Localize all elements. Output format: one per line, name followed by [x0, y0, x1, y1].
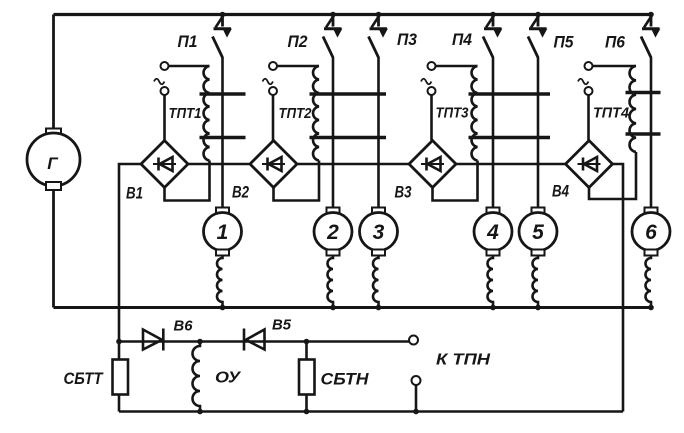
- junction node on top bus at switch П4: [490, 12, 496, 18]
- svg-text:Г: Г: [47, 154, 59, 173]
- switch П5 (knife switch with double-flag arrow): [528, 15, 547, 58]
- switch П4 (knife switch with double-flag arrow): [483, 15, 502, 58]
- switch П3 (knife switch with double-flag arrow): [369, 15, 388, 58]
- wire В1 left vertex output down to measuring circuit: [119, 164, 141, 342]
- svg-text:СБТТ: СБТТ: [64, 369, 104, 388]
- svg-text:К ТПН: К ТПН: [436, 352, 491, 369]
- magnetic core bars of ТПТ2: [310, 94, 387, 138]
- motor 3 bottom brush terminal: [372, 250, 385, 256]
- smoothing coil under motor 6: [646, 256, 652, 308]
- generator Г: [27, 133, 80, 186]
- motor 1 bottom brush terminal: [216, 250, 229, 256]
- traction motor 1: [204, 213, 242, 251]
- junction node ОУ bottom: [197, 409, 203, 415]
- smoothing coil under motor 1: [217, 256, 222, 308]
- AC tilde mark of ТПТ4: [578, 79, 588, 85]
- junction node on top bus at switch П3: [376, 12, 382, 18]
- wire generator to top bus: [52, 15, 55, 130]
- wire В3 right vertex to В4 left vertex (AC link): [456, 163, 566, 166]
- transformer ТПТ2 primary terminal (top circle): [269, 62, 277, 70]
- traction motor 6: [632, 213, 670, 251]
- wire column П2 down to motor 2: [332, 57, 335, 208]
- resistor СБТТ: [113, 360, 129, 395]
- AC tilde mark of ТПТ2: [263, 79, 273, 85]
- motor 4 top brush terminal: [487, 208, 500, 214]
- diode symbol inside В3: [421, 157, 444, 171]
- junction node on top bus at switch П1: [220, 12, 226, 18]
- traction motor 4: [474, 213, 512, 251]
- diode В5: [244, 329, 265, 351]
- magnetic core bars of ТПТ3: [469, 94, 551, 138]
- wire column П3 down to motor 3: [377, 57, 380, 208]
- smoothing coil under motor 5: [533, 256, 539, 308]
- transformer ТПТ1 primary terminal (bottom circle): [161, 87, 169, 95]
- wire В1 right vertex to В2 left vertex (AC link): [188, 163, 250, 166]
- wire ТПТ4 bottom terminal to bridge В4: [587, 95, 590, 141]
- wire column П6 down to motor 6: [650, 57, 653, 208]
- transformer ТПТ2 primary terminal (bottom circle): [269, 87, 277, 95]
- motor 5 bottom brush terminal: [532, 250, 545, 256]
- bridge rectifier В2 (diamond): [250, 141, 297, 188]
- wire column П4 down to motor 4: [492, 57, 495, 208]
- wire down to СБТН: [305, 342, 308, 360]
- motor 5 top brush terminal: [532, 208, 545, 214]
- wire В4 bottom vertex loop to coil bottom: [589, 152, 636, 199]
- wire ТПТ1 bottom terminal to bridge В1: [163, 95, 166, 141]
- svg-text:П5: П5: [554, 33, 574, 52]
- secondary winding (coil) of ТПТ1: [204, 66, 210, 161]
- svg-text:В5: В5: [272, 317, 292, 334]
- wire СБТТ to bottom bus: [118, 394, 121, 412]
- junction node left output / diode line: [116, 339, 122, 345]
- junction node СБТН bottom: [304, 409, 310, 415]
- resistor СБТН: [299, 360, 315, 395]
- generator G top terminal: [46, 129, 61, 137]
- wire: bottom bus: [119, 410, 623, 413]
- wire В2 right vertex to В3 left vertex (AC link): [297, 163, 409, 166]
- wire column П1 down to motor 1: [221, 57, 224, 208]
- svg-text:ТПТ3: ТПТ3: [436, 105, 470, 122]
- svg-text:ТПТ4: ТПТ4: [593, 105, 630, 122]
- junction node on top bus at switch П2: [330, 12, 336, 18]
- transformer ТПТ3 primary terminal (top circle): [428, 62, 436, 70]
- junction node СБТН top: [304, 339, 310, 345]
- svg-text:1: 1: [217, 221, 229, 244]
- wire column П5 down to motor 5: [537, 57, 540, 208]
- motor 2 top brush terminal: [327, 208, 340, 214]
- wire ТПТ3 bottom terminal to bridge В3: [430, 95, 433, 141]
- wire from ТПТ4 top terminal to secondary winding top: [593, 65, 637, 68]
- secondary winding (coil) of ТПТ2: [313, 66, 319, 161]
- svg-text:4: 4: [486, 221, 499, 244]
- wire coil ТПТ2 bottom to AC bus: [318, 161, 321, 165]
- junction node motor 6 to return bus: [648, 305, 654, 311]
- wire from ТПТ2 top terminal to secondary winding top: [277, 65, 319, 68]
- wire В2 bottom vertex loop to coil bottom: [274, 164, 320, 201]
- magnetic core bars of ТПТ4: [626, 93, 661, 135]
- smoothing coil under motor 4: [488, 256, 493, 308]
- wire В1 bottom vertex loop to coil bottom: [165, 164, 210, 201]
- generator G bottom terminal: [46, 182, 61, 190]
- traction motor 5: [519, 213, 557, 251]
- terminal circle К ТПН lower: [412, 376, 421, 385]
- svg-text:П3: П3: [397, 30, 417, 49]
- svg-text:6: 6: [645, 221, 657, 244]
- diode В6: [143, 329, 163, 351]
- secondary winding (coil) of ТПТ4: [630, 66, 636, 152]
- wire coil ТПТ1 bottom to AC bus: [208, 161, 211, 165]
- wire В4 right vertex output down right side: [613, 164, 624, 412]
- wire: motor return bus: [54, 306, 652, 309]
- wire diode line В6-В5: [119, 340, 409, 343]
- svg-text:СБТН: СБТН: [321, 370, 370, 389]
- svg-text:ТПТ1: ТПТ1: [169, 105, 202, 122]
- svg-text:2: 2: [326, 221, 339, 244]
- motor 6 bottom brush terminal: [645, 250, 658, 256]
- junction node on top bus at switch П5: [535, 12, 541, 18]
- svg-text:3: 3: [373, 221, 385, 244]
- smoothing coil under motor 2: [328, 256, 334, 308]
- AC tilde mark of ТПТ1: [154, 79, 164, 85]
- svg-text:5: 5: [532, 221, 544, 244]
- traction motor 2: [314, 213, 352, 251]
- svg-text:П4: П4: [452, 30, 472, 49]
- wire ТПТ2 bottom terminal to bridge В2: [272, 95, 275, 141]
- svg-text:П2: П2: [288, 32, 308, 51]
- switch П1 (knife switch with double-flag arrow): [213, 15, 232, 58]
- svg-text:В3: В3: [395, 183, 412, 202]
- wire from ТПТ1 top terminal to secondary winding top: [169, 65, 210, 68]
- magnetic core bars of ТПТ1: [200, 94, 246, 138]
- junction node ОУ top: [197, 339, 203, 345]
- svg-text:ОУ: ОУ: [215, 370, 241, 387]
- wire generator to motor return bus: [52, 190, 55, 308]
- motor 6 top brush terminal: [645, 208, 658, 214]
- bridge rectifier В4 (diamond): [566, 141, 613, 188]
- junction node motor 2 to return bus: [330, 305, 336, 311]
- motor 3 top brush terminal: [372, 208, 385, 214]
- svg-text:В4: В4: [552, 182, 569, 201]
- transformer ТПТ3 primary terminal (bottom circle): [428, 87, 436, 95]
- traction motor 3: [360, 213, 398, 251]
- diode symbol inside В2: [262, 157, 285, 171]
- diode symbol inside В4: [578, 157, 601, 171]
- bridge rectifier В1 (diamond): [141, 141, 188, 188]
- svg-text:В1: В1: [126, 184, 143, 203]
- svg-text:В6: В6: [174, 318, 194, 335]
- diode symbol inside В1: [153, 157, 176, 171]
- svg-text:В2: В2: [232, 183, 249, 202]
- AC tilde mark of ТПТ3: [421, 79, 431, 85]
- wire: top supply bus: [54, 13, 652, 16]
- motor 4 bottom brush terminal: [487, 250, 500, 256]
- junction node on top bus at switch П6: [648, 12, 654, 18]
- wire В3 bottom vertex loop to coil bottom: [433, 164, 478, 201]
- terminal circle К ТПН upper: [409, 336, 418, 345]
- transformer ТПТ4 primary terminal (top circle): [585, 62, 593, 70]
- junction node motor 1 to return bus: [220, 305, 226, 311]
- junction node motor 5 to return bus: [535, 305, 541, 311]
- switch П6 (knife switch with double-flag arrow): [641, 15, 660, 58]
- svg-text:П6: П6: [605, 33, 625, 52]
- switch П2 (knife switch with double-flag arrow): [323, 15, 342, 58]
- wire down to СБТТ: [118, 342, 121, 360]
- wire from ТПТ3 top terminal to secondary winding top: [436, 65, 478, 68]
- wire lower terminal to bottom bus: [415, 385, 418, 412]
- junction node motor 4 to return bus: [490, 305, 496, 311]
- junction node motor 3 to return bus: [376, 305, 382, 311]
- svg-text:П1: П1: [178, 32, 198, 51]
- junction node lower terminal on bottom bus: [413, 409, 419, 415]
- bridge rectifier В3 (diamond): [409, 141, 456, 188]
- wire СБТН to bottom bus: [305, 394, 308, 412]
- transformer ТПТ1 primary terminal (top circle): [161, 62, 169, 70]
- secondary winding (coil) of ТПТ3: [472, 66, 478, 161]
- transformer ТПТ4 primary terminal (bottom circle): [585, 87, 593, 95]
- smoothing coil under motor 3: [373, 256, 379, 308]
- motor 2 bottom brush terminal: [327, 250, 340, 256]
- wire coil ТПТ3 bottom to AC bus: [476, 161, 479, 165]
- motor 1 top brush terminal: [216, 208, 229, 214]
- svg-text:ТПТ2: ТПТ2: [279, 105, 313, 122]
- winding ОУ: [193, 342, 200, 412]
